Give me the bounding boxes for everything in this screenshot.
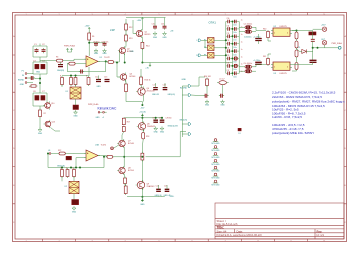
junction bottom [141,196,143,198]
svg-text:GND: GND [205,104,210,106]
resistor R25 [66,168,69,178]
svg-text:GND: GND [72,212,77,214]
svg-text:Size: A4: Size: A4 [217,229,227,233]
svg-text:U1B: U1B [95,144,100,146]
power flag 2 [70,49,72,51]
wire pin to C30 [191,94,203,97]
svg-text:Kimarik DAC: Kimarik DAC [98,106,117,110]
wire ecap out [254,27,257,30]
transistor Q3 [119,73,127,82]
wire R30 to C30 [206,86,208,94]
wire connector bus [181,86,183,137]
title block text [217,219,325,237]
wire feedback loop [67,61,105,71]
pin 1 connector P1 [25,73,29,75]
svg-text:Title:: Title: [217,226,225,230]
svg-text:22uF/63 - RM22 WIMA R=5, 7,5x2: 22uF/63 - RM22 WIMA R=5, 7,5x2,5 [272,95,322,99]
svg-text:polar(polark) MKE 10k- 525NY: polar(polark) MKE 10k- 525NY [272,131,314,135]
svg-text:TL072: TL072 [104,57,111,59]
resistor R5 feedback [67,62,76,65]
wire loop C1 C2 [33,46,47,57]
wire to output terminal [313,47,339,49]
power +35V rail [141,18,143,20]
capacitor C8 [94,42,98,47]
pin LS connector [49,153,53,155]
wire [39,106,41,109]
svg-text:Id: 1/1: Id: 1/1 [317,233,325,237]
transistor Q1 [135,29,143,38]
resistor R43 [295,41,298,48]
wire pin to R30 [191,77,205,86]
diode D10 [238,128,241,131]
svg-text:C2x 10000u: C2x 10000u [244,63,253,65]
wire chain a [296,39,298,41]
svg-text:R16 1k: R16 1k [145,80,151,82]
IC U2 [271,28,292,36]
svg-text:C33: C33 [227,40,230,42]
capacitor C10 polarized [58,65,63,67]
wire to R40 [256,30,266,32]
power +35V U1A [88,28,90,30]
svg-text:R12: R12 [129,27,132,29]
junction Q3 base rail [116,62,118,64]
wire chain to U3 [292,70,297,72]
resistor R24a [61,168,64,178]
svg-text:+IN: +IN [170,30,174,32]
wire Q13 emitter [51,128,61,132]
ground C9 [103,49,107,53]
ground C8 [94,49,98,53]
wire C22 [166,185,168,189]
wire R3 to in+ [64,59,84,60]
svg-text:C31: C31 [227,25,230,27]
transistor Q7 [117,139,125,148]
resistor R44a [295,50,298,57]
svg-text:C16: C16 [161,24,164,26]
testpoint TP5 [213,166,218,169]
wire [39,57,41,62]
transistor Q6 [137,121,146,131]
wire [258,41,260,45]
capacitor bank row 6 [226,57,239,61]
svg-text:C13: C13 [104,77,107,79]
wire input top [39,44,41,47]
resistor R23a [106,155,115,158]
wire [258,34,260,39]
svg-text:R13: R13 [129,38,132,40]
svg-text:GND: GND [140,204,145,206]
capacitor bank row 8 [226,72,239,76]
svg-text:K1: K1 [66,91,68,93]
resistor R17a [122,118,125,126]
svg-text:MTG GND: MTG GND [212,150,221,152]
wire L1 to C31 [222,85,224,94]
svg-text:BC546: BC546 [128,143,134,145]
svg-text:R30 10R: R30 10R [204,76,211,78]
capacitor C19 [153,120,158,122]
wire stub4 [182,133,188,135]
wire [113,145,118,148]
fuse F2 [208,45,215,51]
resistor R14a [141,41,144,50]
wire R5 to in- [77,63,84,65]
capacitor CE1 polarized [243,26,253,30]
svg-text:BD139: BD139 [145,34,151,36]
svg-text:GND: GND [182,79,187,81]
wire R13 to Q2 [125,41,126,48]
resistor R2 [39,109,42,119]
resistor R12a [125,23,128,32]
wire R12-R13 [125,30,127,35]
inductor L1 [217,81,229,85]
capacitor CE3 polarized [243,65,253,69]
transistor Q2 [118,46,126,55]
capacitor bank row 1 [226,20,239,24]
wire chain b [296,48,298,50]
svg-text:GND(IN): GND(IN) [57,70,64,72]
svg-text:GND: GND [36,72,41,74]
svg-text:Q10: Q10 [51,103,54,105]
svg-text:2SA1943: 2SA1943 [147,185,155,188]
wire output rail lower [312,41,314,60]
resistor R11a [87,76,90,86]
resistor R26 [73,168,76,178]
svg-text:IN_GND: IN_GND [180,87,188,89]
svg-text:MTG GND: MTG GND [212,185,221,187]
resistor R22 [58,152,67,155]
blue notes text block [272,91,345,136]
wire U2 out [292,30,313,32]
svg-text:GND(LS): GND(LS) [57,165,65,167]
wire [239,26,243,28]
svg-text:GND: GND [97,86,102,88]
svg-text:R41: R41 [263,56,266,58]
capacitor C18 [163,88,168,90]
wire loop C6 C7 [33,93,47,106]
svg-text:C30: C30 [227,18,230,20]
svg-text:2x10000u: 2x10000u [244,36,251,38]
svg-text:L: L [197,40,198,42]
wire Q1 to R14 [141,37,143,43]
svg-text:2,2uF/100 - CM/26 6026/U R=15,: 2,2uF/100 - CM/26 6026/U R=15, 7x11,5x18… [272,91,336,95]
svg-text:LM1875: LM1875 [280,73,288,75]
svg-text:GND: GND [94,53,99,55]
capacitor bank row 3 [226,35,239,39]
resistor R45a [295,63,298,70]
pin 1 J2 [98,111,102,113]
svg-text:100n: 100n [234,54,237,56]
fuse F3 [208,53,215,59]
svg-text:+35V: +35V [137,20,143,22]
capacitor C60 polarized [255,39,262,41]
wire F2 out [214,47,226,49]
power arrow down lower stage [141,114,143,117]
power +35 mid [149,65,151,67]
title block outline [215,203,344,239]
capacitor C22 [165,189,170,191]
svg-text:100n: 100n [234,40,237,42]
svg-text:OTA1: OTA1 [209,21,217,25]
svg-text:Q13: Q13 [52,122,55,124]
resistor R46 dark [309,32,316,35]
wire C16 top [164,18,166,25]
fuse F1 [208,38,215,44]
wire to K2 b [73,177,75,182]
testpoint TP7 [213,180,218,183]
wire [98,76,100,80]
svg-text:C35: C35 [227,55,230,57]
svg-text:BC556: BC556 [128,170,134,172]
wire to main [124,156,141,158]
svg-text:GND: GND [73,116,78,118]
capacitor bank row 7 [226,64,239,68]
junction Q2 rail [124,62,126,64]
svg-text:D1: D1 [298,47,300,49]
capacitor C6 polarized [35,96,39,101]
wire [254,65,257,67]
wire Q4 emitter [142,96,144,102]
ground C16 [163,32,167,36]
wire to K1 [61,85,63,88]
wire R17 to Q7 [122,132,124,141]
wire Q1 base [133,20,136,34]
svg-text:2SA1943: 2SA1943 [147,125,155,128]
wire [141,189,143,199]
svg-text:R18: R18 [146,136,149,138]
wire [75,158,77,168]
wire stub2 [182,94,188,96]
capacitor C53 on rail [311,39,315,41]
output terminal [338,46,341,49]
svg-text:SPK-: SPK- [170,196,175,198]
wire pwr to Q1 [141,20,143,31]
testpoint TP2 [213,146,218,149]
pin 2 J2 [103,111,107,113]
wire pin-F1 [201,39,208,41]
svg-text:1u: 1u [241,64,243,66]
wire Q3 to R15 [125,80,127,84]
wire U3 out [292,64,313,66]
svg-text:+5: +5 [102,117,104,119]
wire opamp out [98,60,108,62]
wire pin3 [29,82,33,84]
wire stub3 [182,123,188,125]
svg-text:C18: C18 [163,84,166,86]
capacitor C2 [42,48,46,53]
IC U3 [271,62,292,70]
wire main vertical upper end [141,102,143,106]
testpoint TP3 [213,153,218,156]
wire F3 out [214,54,226,56]
wire [268,39,271,41]
svg-text:100n: 100n [234,69,237,71]
svg-text:PWR_FLAG: PWR_FLAG [332,42,343,45]
ground C20 [160,126,164,130]
capacitor C15 [153,25,157,30]
svg-text:MTG GND: MTG GND [212,171,221,173]
svg-text:1u: 1u [241,56,243,58]
wire [88,30,90,33]
ground C31 [221,100,225,104]
capacitor C23 polarized [66,156,72,160]
svg-text:100n: 100n [234,25,237,27]
resistor R20a [124,177,127,186]
wire chain to gnd [39,118,41,129]
svg-text:C34: C34 [227,48,230,50]
relay K1 [70,87,81,99]
wire [239,31,243,33]
resistor R17b [122,126,125,132]
wire C21 [158,185,160,189]
resistor R15a [125,83,128,94]
capacitor C21 [156,189,161,191]
wire opamp V- [88,67,90,76]
svg-text:C37: C37 [227,70,230,72]
svg-text:GND: GND [153,37,158,39]
wire feedback U1B [48,154,104,168]
svg-text:P1: P1 [22,71,24,73]
relay K2 [69,181,79,193]
capacitor bank row 4 [226,42,239,46]
polarized cap circle in bank 2 [234,64,237,67]
resistor R19a [141,152,144,162]
svg-text:R17: R17 [127,121,130,123]
wire [254,70,257,72]
capacitor C30 [203,94,208,98]
svg-text:1uF/63 - R=8, 7,5x2,5: 1uF/63 - R=8, 7,5x2,5 [272,115,302,119]
capacitor C61 polarized [255,62,262,64]
capacitor C1 [35,48,39,53]
wire to R41 [256,64,266,66]
wire stub arrow [149,63,151,65]
transistor Q4 [136,87,145,97]
capacitor C31 [219,94,224,98]
svg-text:R40: R40 [263,29,266,31]
svg-text:GND(LS)/-35V: GND(LS)/-35V [168,125,179,127]
wire C18 [164,83,166,88]
op-amp U1A [84,56,100,67]
wire [239,66,243,68]
wire K2 to C24 [73,194,75,200]
resistor R8a [61,76,64,86]
svg-text:1u: 1u [241,42,243,44]
resistor R3 [55,59,64,62]
wire pin-F3 [201,54,208,56]
wire U2 to chain [292,31,297,33]
svg-text:GND: GND [220,104,225,106]
svg-text:GND(LS): GND(LS) [168,94,176,96]
resistor R41 [267,57,270,66]
wire D1 out [306,50,312,52]
wire pin1 [29,73,33,76]
svg-text:GND: GND [20,84,25,86]
polarized cap circle in bank 1 [234,57,237,60]
wire [268,54,271,57]
svg-text:C36: C36 [227,62,230,64]
wire resistor row top [62,75,89,77]
svg-text:GND: GND [130,51,135,53]
wire C19 top [155,118,157,120]
resistor R30 [206,78,209,88]
capacitor C5 small [30,76,35,80]
svg-text:R3: R3 [56,57,58,59]
wire [60,62,62,65]
ground C19 [154,126,158,130]
svg-text:C32: C32 [227,33,230,35]
wire R18 down [141,139,144,147]
wire to Q2 base [115,51,119,63]
svg-text:PWR_FLAG: PWR_FLAG [64,45,75,48]
resistor R21a [124,185,127,196]
svg-text:R14: R14 [146,46,149,48]
svg-text:GND/-35: GND/-35 [152,94,159,96]
wire stub1 [182,85,188,87]
wire +35 rail to OTA [142,62,232,64]
wire main vertical lower [141,160,143,181]
transistor Q13 [44,120,51,128]
svg-text:100n: 100n [234,47,237,49]
wire R14 down [141,49,143,63]
wire R20 to R21 [124,184,127,187]
wire C17 [155,83,157,88]
ground C30 [205,100,209,104]
resistor R13a [125,34,128,43]
wire Q3 base [117,63,120,78]
transistor Q9b [136,180,145,190]
svg-text:+35V: +35V [321,25,326,27]
capacitor C11 feedback [79,70,84,74]
svg-text:100n: 100n [234,32,237,34]
pin 3 connector P1 [25,82,29,84]
svg-text:INGND: INGND [18,80,25,82]
wire F1 out [214,39,226,41]
capacitor C17 [153,88,158,90]
power arrow down output gnd [141,199,143,202]
wire R12 top [125,19,127,24]
wire U1B out [98,156,107,157]
svg-text:Rev:: Rev: [317,229,323,233]
capacitor CE2 polarized [243,30,253,34]
capacitor C12 polarized [96,80,101,82]
svg-text:1u: 1u [241,27,243,29]
wire loop C3 C4 [33,62,47,74]
wire input to R3 [40,60,55,62]
testpoint TP4 [213,159,218,162]
svg-text:GND(LS): GND(LS) [179,119,187,121]
resistor R1 [30,85,38,87]
svg-text:R2: R2 [44,113,46,115]
capacitor C9 [103,42,107,47]
pin 2 connector P1 [25,77,29,79]
svg-text:TL072: TL072 [101,144,108,146]
svg-text:GND: GND [96,117,101,119]
svg-text:MTG GND: MTG GND [212,143,221,145]
wire R16 to Q4 [140,85,143,88]
wire input chain [39,74,41,93]
ground C15 [153,32,157,36]
wire supply caps [89,42,104,44]
wire output to connector [146,132,187,157]
svg-text:1u: 1u [241,34,243,36]
capacitor bank row 5 [226,49,239,53]
wire to K1 b [75,85,77,88]
resistor R7 output [107,61,116,64]
svg-text:MTG GND: MTG GND [212,157,221,159]
wire to D1 [297,49,302,52]
svg-text:1uF/250: 1uF/250 [166,117,172,119]
resistor R18 rounded [142,132,145,139]
wire post2 to out [324,45,326,48]
